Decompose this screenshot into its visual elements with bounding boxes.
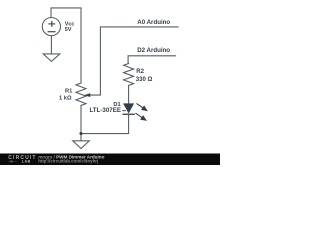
svg-text:http://circuitlab.com/c/9nyhrj: http://circuitlab.com/c/9nyhrj xyxy=(38,159,98,164)
svg-text:5V: 5V xyxy=(65,27,72,33)
svg-text:1 kΩ: 1 kΩ xyxy=(59,96,72,102)
svg-text:D2 Arduino: D2 Arduino xyxy=(137,47,170,54)
svg-text:A0 Arduino: A0 Arduino xyxy=(137,19,170,26)
svg-text:─w──: ─w── xyxy=(7,159,18,163)
svg-text:LAB: LAB xyxy=(22,160,31,164)
svg-text:R1: R1 xyxy=(65,89,72,95)
svg-text:R2: R2 xyxy=(136,69,144,75)
svg-text:LTL-307EE: LTL-307EE xyxy=(89,107,121,114)
svg-text:330 Ω: 330 Ω xyxy=(136,77,153,83)
